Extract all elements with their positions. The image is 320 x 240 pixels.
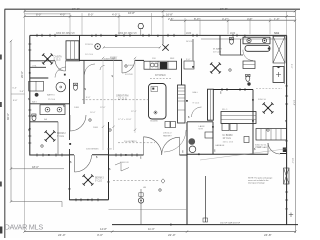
garage note text [248,177,272,185]
right wall inner line [284,63,286,84]
svg-text:DAVAR MLS: DAVAR MLS [5,223,44,232]
svg-text:12' CLG: 12' CLG [118,97,127,100]
svg-text:BDRM 3: BDRM 3 [95,178,104,180]
svg-text:16'-0": 16'-0" [90,112,96,114]
svg-text:5'-0": 5'-0" [290,64,292,69]
kitchen dashes [150,78,172,80]
kitchen right wall [181,59,183,86]
svg-text:2668 DR: 2668 DR [120,162,129,164]
washer dryer pair [29,81,44,91]
bedroom3 wing bottom wall [69,199,108,201]
hall door arc [85,64,96,75]
patio post line [140,189,142,225]
wic wall [219,35,221,55]
pantry shelves [178,85,186,123]
casita right wall [79,35,81,60]
garage step wall [205,176,207,222]
right window X box [273,36,285,63]
svg-text:24'-0": 24'-0" [58,233,66,237]
wing wall x=69.5 upper [69,79,71,104]
range dark box [160,62,167,69]
svg-text:PANTRY: PANTRY [163,134,172,137]
bath2 door arc [70,115,86,131]
top wall inner line right [201,38,287,40]
svg-text:16'-8": 16'-8" [166,12,173,16]
patio zigzag [115,163,129,172]
master bath toilet left [230,39,234,45]
svg-text:22'-4": 22'-4" [131,111,137,113]
bedroom3 top wall segs [69,154,74,156]
svg-text:22'-0": 22'-0" [168,233,176,237]
svg-text:20'-0": 20'-0" [20,71,24,78]
top dimension row 3 (right) [170,19,295,21]
bedroom3 bottom window ticks [76,198,98,201]
garage left wall [186,122,188,225]
patio interior line [109,208,188,210]
svg-text:BA 3: BA 3 [32,101,37,104]
svg-text:9' CLG: 9' CLG [57,136,64,138]
living bottom wall window ticks [116,154,137,157]
svg-text:18'-0": 18'-0" [32,165,39,169]
ceiling fan bedroom3 [83,174,94,185]
svg-text:FOYER: FOYER [125,74,133,76]
svg-text:2468: 2468 [74,107,80,109]
master tub [245,46,270,52]
bottom-left wall window ticks [37,154,62,157]
bedroom3 door arc [75,155,92,172]
mud bench [205,132,213,138]
patio dashed run [113,180,159,182]
svg-text:160 SF GAR 483 SF: 160 SF GAR 483 SF [220,221,241,224]
great room dashed run [82,99,149,101]
svg-text:20'-0": 20'-0" [291,158,293,164]
svg-text:12x14 PATIO: 12x14 PATIO [124,140,137,143]
svg-text:3'-4": 3'-4" [20,91,25,93]
garage diagonal leader [200,149,287,160]
ceiling fan bedroom2 [45,130,56,141]
svg-text:9' CLG: 9' CLG [193,103,200,105]
svg-text:24'-8": 24'-8" [220,7,228,11]
svg-text:KITCHEN: KITCHEN [155,74,166,77]
master suite divider wall [213,89,253,91]
svg-text:2'-6": 2'-6" [168,17,173,21]
octagon ceiling light [138,24,144,29]
svg-text:3050 SH 3050 SH: 3050 SH 3050 SH [56,33,75,35]
house top wall [30,34,287,36]
dark dot [35,93,39,97]
patio double door arcs [144,137,180,155]
master bath chandelier fan [210,62,221,73]
left dim horizontal y=169 [11,168,64,170]
dark post on top wall [115,35,117,37]
porch post [95,44,101,50]
frame top [5,8,301,10]
right wall window ticks [285,96,288,200]
casita door arc [55,61,65,71]
front wall entry [80,59,123,61]
svg-text:40'-0": 40'-0" [6,113,10,120]
entry door leaf and arc [122,60,135,73]
frame right [294,9,296,233]
scan mark left edge 3 [0,182,2,187]
nook right wall [192,39,194,60]
living bottom wall right seg [180,154,188,156]
left margin connector + texts [11,93,25,95]
svg-text:M. BATH: M. BATH [213,48,222,51]
svg-text:14'-8": 14'-8" [100,227,107,231]
bottom dim texts [58,233,272,237]
svg-text:12'-0": 12'-0" [100,107,106,109]
linen cabinet [243,61,255,69]
master vanity [243,37,270,44]
mud room top wall [187,121,213,123]
svg-text:5068: 5068 [128,65,134,67]
svg-text:6'-0": 6'-0" [13,88,18,90]
svg-text:M. BDRM: M. BDRM [223,135,233,137]
svg-text:NOOK: NOOK [186,41,193,43]
svg-text:8'-0": 8'-0" [86,97,91,99]
outlet dark square [64,74,66,76]
svg-text:GARAGE: GARAGE [215,144,225,147]
tiny annotation text blobs [32,41,267,189]
bath2 toilet [32,115,36,121]
top dimension row 2 [25,15,296,17]
patio diamond symbol [161,179,165,183]
garage door arc [268,143,280,154]
hall door arc [192,107,202,117]
svg-text:16'-8": 16'-8" [128,11,135,15]
island [149,84,167,120]
water softener circle patio [138,198,143,203]
outlet squares scattered on walls [29,35,288,226]
svg-text:REF: REF [170,58,175,60]
left dim horizontal y=201.5 [11,202,62,208]
tall cabinet [208,89,214,120]
svg-text:4'-0": 4'-0" [60,12,65,16]
svg-text:UTIL: UTIL [32,66,38,68]
svg-text:2030: 2030 [186,33,192,35]
living dashed run 2 [118,142,155,144]
svg-text:HB: HB [143,187,147,189]
bath2 vanity [40,105,65,115]
softener circle [189,146,196,153]
svg-text:BA 2: BA 2 [58,69,63,72]
svg-text:24'-8": 24'-8" [264,233,272,237]
scan mark left edge 1 [0,55,2,60]
bedroom3 right wall [108,122,110,200]
laundry wall y=78 [30,77,49,79]
svg-text:CASITA: CASITA [54,56,63,59]
casita bottom wall [30,60,55,62]
svg-text:5050 SL: 5050 SL [258,99,267,101]
casita closet [66,41,79,60]
svg-text:10' CLG: 10' CLG [85,54,93,56]
bottom dimension row [25,231,296,233]
svg-text:total square footage: total square footage [248,182,265,185]
master bedroom left wall [252,90,254,154]
top dimension short row left [25,13,71,15]
fridge cabinet [184,61,194,69]
bedroom2 hall wall [30,121,58,123]
bedroom3 wing left wall [69,79,71,140]
nook left wall [162,36,164,44]
left wall window ticks [28,44,31,143]
svg-text:8'-8": 8'-8" [13,100,18,102]
left dim column [10,41,12,202]
dim texts row2 [36,11,173,16]
svg-text:11'-0": 11'-0" [148,227,155,231]
svg-text:4'-0": 4'-0" [112,12,117,16]
interior dim X ticks [102,57,136,131]
garage bottom wall [112,224,298,226]
svg-text:16'0 x 13'4: 16'0 x 13'4 [223,142,234,144]
ceiling fan master bedroom [263,102,274,113]
interior dim line C [134,58,136,133]
closet2 stripes [256,129,287,141]
svg-text:4'-2": 4'-2" [222,17,227,21]
svg-text:2030: 2030 [230,33,236,35]
scan mark left edge 4 [0,227,2,234]
dark dot below toilet [247,82,250,85]
garage door jamb [283,148,287,153]
bath2 top wall [30,103,70,105]
svg-text:17'-4" x 19'-8": 17'-4" x 19'-8" [118,119,132,121]
svg-text:24'-0": 24'-0" [72,7,80,11]
dim tick slashes [23,10,296,22]
garage right window [284,168,289,184]
svg-text:8'-0": 8'-0" [194,17,199,21]
bedroom dashed ceiling line [256,88,282,90]
garage top wall [187,153,268,155]
small arc at great room corner [100,66,105,71]
bath3 door arc [55,67,66,78]
left dim ticks [10,40,12,203]
svg-text:8'-0": 8'-0" [36,12,41,16]
closet drawers [222,124,229,131]
hall right wall [83,61,85,104]
scan mark left edge 2 [0,102,2,107]
svg-text:BATH 3: BATH 3 [47,93,55,96]
utility divider wall [30,66,46,68]
svg-text:8'-0": 8'-0" [88,12,93,16]
svg-text:9' CLG: 9' CLG [54,59,61,61]
master toilet [246,76,250,82]
svg-text:13'-4": 13'-4" [293,100,295,106]
kitchen counter row [144,61,177,69]
svg-text:3050 SH 3050 SH: 3050 SH 3050 SH [118,33,137,35]
svg-text:BDRM 2: BDRM 2 [57,133,66,135]
svg-text:1'-0": 1'-0" [274,17,279,21]
living bottom wall left seg [109,154,144,156]
svg-text:HALL: HALL [193,91,199,94]
bottom dim ticks [23,230,296,232]
master bath door arc [243,50,253,61]
top dimension row 1 [25,10,296,12]
kitchen sink circles [150,63,154,67]
small boxes left of pantry [165,122,170,128]
walkin closet shelves [221,112,256,124]
top wall labels [56,33,280,35]
mud room right wall [212,122,214,155]
svg-text:4'-0": 4'-0" [247,17,252,21]
dim texts row3 [168,17,279,21]
bedroom2 closet wall [57,122,59,155]
svg-text:ISLAND: ISLAND [150,120,158,123]
porch dim line [104,46,161,48]
svg-text:5068 BIPASS: 5068 BIPASS [86,147,99,150]
bottom-left wall [30,154,70,156]
svg-text:3'-0": 3'-0" [97,233,103,237]
house left wall [29,35,31,155]
svg-text:W H: W H [199,129,204,131]
svg-text:LIN CLO: LIN CLO [163,133,172,135]
ceiling fan casita [42,53,53,64]
svg-text:9' CLG: 9' CLG [95,180,102,182]
svg-text:2668: 2668 [93,127,99,129]
svg-text:9' CLG: 9' CLG [48,99,55,101]
house right wall [286,35,288,224]
bottom right cross [289,213,293,218]
dim texts row1 [72,7,228,11]
switch symbols [28,74,287,171]
mud door arc [164,130,186,152]
svg-text:W.I.C.: W.I.C. [222,109,228,111]
svg-text:16'-8": 16'-8" [256,147,262,149]
dim extension ticks top [25,10,287,232]
interior dim line B [113,58,115,150]
top wall window ticks [37,34,237,37]
svg-text:PORCH: PORCH [85,44,93,46]
svg-text:LAUN: LAUN [199,125,205,128]
interior dim line A [102,58,104,150]
water heater circle [189,138,196,145]
ceiling outlet circles [41,65,269,191]
frame left [4,9,6,238]
svg-text:9'-0": 9'-0" [186,59,191,61]
svg-text:10' CLG: 10' CLG [223,138,232,140]
big round fixture [56,82,66,92]
bath3 toilet [74,85,78,91]
master shower [273,67,284,83]
nook fan [162,44,168,50]
